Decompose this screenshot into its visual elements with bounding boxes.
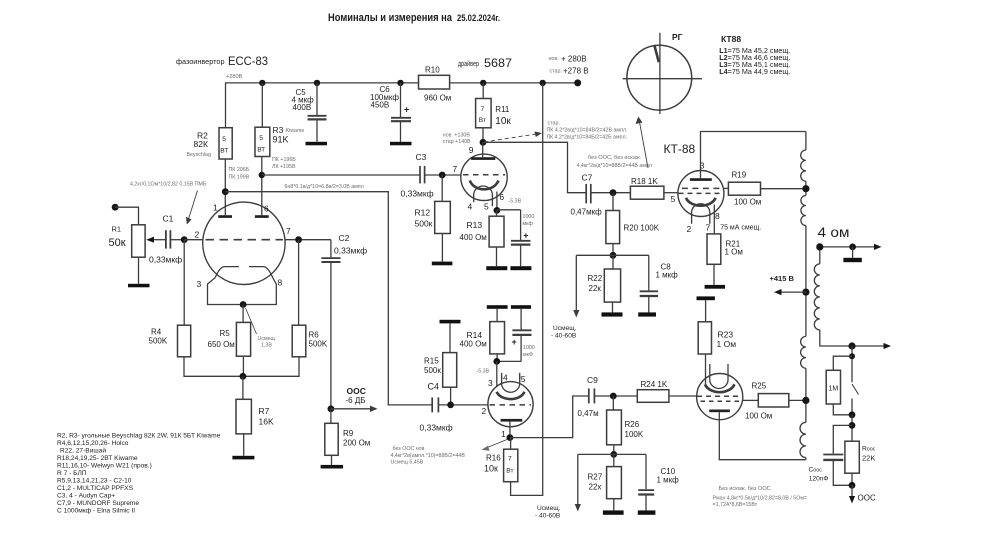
svg-text:R12: R12 <box>415 208 431 218</box>
capacitor C5 4mkf <box>316 83 318 115</box>
svg-text:500к: 500к <box>424 366 441 375</box>
node B+ tap <box>802 289 809 296</box>
rail bar above R15 <box>440 320 461 324</box>
svg-text:Вт: Вт <box>506 468 513 475</box>
svg-text:100 Ом: 100 Ом <box>734 198 761 207</box>
node R14/cathode <box>493 358 500 365</box>
svg-text:нов. +130В: нов. +130В <box>443 133 471 139</box>
svg-text:4,4кг*2в/д*10=88В/2=44В ампл: 4,4кг*2в/д*10=88В/2=44В ампл <box>577 163 652 169</box>
svg-text:L4=75 Ма 44,9 смещ.: L4=75 Ма 44,9 смещ. <box>719 69 790 76</box>
svg-text:С4: С4 <box>428 382 440 392</box>
svg-text:Uсмещ: Uсмещ <box>258 336 276 342</box>
svg-text:R14: R14 <box>467 330 483 340</box>
svg-text:7: 7 <box>286 226 291 236</box>
svg-text:16K: 16K <box>259 417 274 427</box>
svg-text:10к: 10к <box>484 464 498 474</box>
svg-text:ВТ: ВТ <box>257 147 265 154</box>
KT88 bias list <box>719 34 790 76</box>
cathode bracket pins 3,8 <box>208 278 277 305</box>
node R26/R27 <box>610 451 617 458</box>
capacitor C7 0,47mkf <box>585 184 587 204</box>
ground under R9 <box>321 465 344 469</box>
svg-text:R26: R26 <box>625 420 640 429</box>
bias feed arrow upper <box>576 254 613 256</box>
node OOC out <box>849 482 856 489</box>
ground under 1000mkf <box>510 266 531 270</box>
svg-text:+415 В: +415 В <box>770 274 795 283</box>
resistor R5 650 Om <box>242 305 244 323</box>
resistor R22 22k <box>612 255 614 269</box>
resistor R20 100K <box>612 193 614 211</box>
wire pin7 to C2 <box>285 239 331 241</box>
svg-text:1М: 1М <box>829 386 839 393</box>
svg-text:R4: R4 <box>151 328 162 337</box>
resistor R14 400 Om <box>496 309 498 322</box>
R1 wiper arrow <box>146 237 154 243</box>
svg-text:стар +140В: стар +140В <box>443 139 471 145</box>
ground bar under C10 <box>638 510 656 514</box>
capacitor 1000mkf upper <box>497 209 521 211</box>
svg-text:500K: 500K <box>149 337 168 346</box>
svg-text:L3=75 Ма 45,1 смещ.: L3=75 Ма 45,1 смещ. <box>719 62 790 69</box>
svg-text:8: 8 <box>278 278 283 288</box>
svg-text:+280В: +280В <box>226 74 243 80</box>
svg-text:без ООС нов: без ООС нов <box>393 446 425 452</box>
svg-text:R4,6,12,15,20,26- Holco: R4,6,12,15,20,26- Holco <box>57 440 129 447</box>
svg-text:ПК +196Б: ПК +196Б <box>272 157 296 163</box>
svg-text:R2, R3- угольные Beyschlag 82: R2, R3- угольные Beyschlag 82К 2W, 91К 5… <box>57 433 221 440</box>
svg-text:драйвер: драйвер <box>458 60 479 68</box>
svg-text:5: 5 <box>484 202 489 212</box>
svg-text:R22, 27-Вишай: R22, 27-Вишай <box>60 447 106 455</box>
svg-text:0,47мкф: 0,47мкф <box>571 208 603 217</box>
svg-text:100K: 100K <box>625 430 644 439</box>
wire C3 to 5687 grid <box>425 174 461 176</box>
ground under R1 <box>128 284 150 288</box>
potentiometer R1 50k <box>132 225 145 257</box>
label phase inverter ECC-83 <box>176 54 268 68</box>
5687b heater dome <box>502 376 520 392</box>
KT-88b control grid dashed <box>697 395 741 397</box>
svg-text:450В: 450В <box>371 101 390 110</box>
ECC-83 cathode hooks <box>215 267 239 278</box>
svg-text:8: 8 <box>715 211 720 221</box>
svg-text:1000: 1000 <box>523 214 535 220</box>
node OOC tap <box>328 405 335 412</box>
5687b cathode arc <box>497 392 525 399</box>
node C4/R15 <box>447 402 454 409</box>
KT-88a cathode pin 8 <box>713 205 715 234</box>
capacitor C6 100mkf <box>400 83 402 117</box>
KT-88b heater dome <box>710 376 728 389</box>
svg-text:3: 3 <box>488 378 493 388</box>
svg-text:1 Ом: 1 Ом <box>725 248 743 257</box>
svg-text:+ 280В: + 280В <box>561 55 587 64</box>
junction dots on bus <box>259 79 581 86</box>
resistor R24 1K <box>637 390 669 403</box>
svg-text:КТ88: КТ88 <box>721 34 741 44</box>
svg-text:стар.: стар. <box>548 121 560 127</box>
svg-text:С 1000мкф - Elna Silmic II: С 1000мкф - Elna Silmic II <box>57 508 135 515</box>
node pin7/R6 <box>295 236 302 243</box>
svg-text:КТ-88: КТ-88 <box>664 142 696 156</box>
ground under R13 <box>486 266 507 270</box>
resistor R27 22k <box>613 454 615 466</box>
svg-text:+: + <box>512 337 517 347</box>
ECC-83 anode plate 1 <box>218 215 232 218</box>
output 4 Om line <box>820 246 877 248</box>
KT-88a screen grid dashed <box>682 187 720 189</box>
svg-text:L2=75 Ма 46,6 смещ.: L2=75 Ма 46,6 смещ. <box>719 55 790 62</box>
svg-text:22K: 22K <box>862 454 875 463</box>
svg-text:1 Ом: 1 Ом <box>717 339 737 349</box>
svg-text:1: 1 <box>501 429 506 439</box>
KT-88a anode plate <box>690 178 712 181</box>
wire R3 node to C3 <box>262 174 420 176</box>
svg-text:С1,2 - MULTICAP PPFXS: С1,2 - MULTICAP PPFXS <box>57 485 134 492</box>
svg-text:R 7 - БЛП: R 7 - БЛП <box>57 470 87 477</box>
KT-88b cathode arc <box>705 384 734 392</box>
svg-text:1 мкф: 1 мкф <box>657 476 680 485</box>
capacitor 1000mkf lower <box>520 309 522 330</box>
svg-text:ЛК 4.2*2в/д*10=84Б/2=42Б ампл.: ЛК 4.2*2в/д*10=84Б/2=42Б ампл. <box>547 134 628 140</box>
node UL tap R19 <box>802 185 809 192</box>
resistor R26 100K <box>612 396 614 410</box>
svg-text:4 ом: 4 ом <box>818 225 850 240</box>
svg-text:R3: R3 <box>273 125 284 135</box>
svg-text:R5,9,13,14,21,23 - С2-10: R5,9,13,14,21,23 - С2-10 <box>57 478 132 485</box>
svg-text:С7: С7 <box>582 173 593 183</box>
svg-text:R27: R27 <box>588 473 603 482</box>
svg-text:Вт: Вт <box>479 117 486 124</box>
svg-text:R18,24,19,25- 2ВТ Kiwame: R18,24,19,25- 2ВТ Kiwame <box>57 455 138 462</box>
svg-text:960 Ом: 960 Ом <box>424 94 451 103</box>
node anode1/R2 <box>222 188 229 195</box>
node R4/R5/R6 <box>240 373 247 380</box>
svg-text:9: 9 <box>469 145 474 155</box>
B+ bus wire +280V <box>226 83 419 128</box>
svg-text:0,33мкф: 0,33мкф <box>420 423 453 433</box>
svg-text:R16: R16 <box>486 454 501 463</box>
wire R3 bottom to tube pin6 <box>261 157 263 216</box>
svg-text:R23: R23 <box>718 330 734 340</box>
resistor R19 100 Om <box>724 187 729 189</box>
wire R1 bottom to ground <box>138 257 140 284</box>
node C7/R18/R20 <box>610 189 617 196</box>
svg-text:2: 2 <box>482 406 487 416</box>
svg-text:0,33мкф: 0,33мкф <box>401 189 434 199</box>
svg-text:R19: R19 <box>732 171 747 180</box>
svg-text:L1=75 Ма 45,2 смещ.: L1=75 Ма 45,2 смещ. <box>719 48 790 55</box>
svg-text:400 Ом: 400 Ом <box>460 233 487 242</box>
bias feed arrow lower <box>578 453 614 455</box>
capacitor C4 0,33mkf <box>431 397 433 412</box>
5687a grid dashed <box>463 174 505 176</box>
tube 5687a envelope <box>461 154 507 200</box>
resistor R15 500k <box>449 323 451 352</box>
node Cooc tap <box>849 422 856 429</box>
resistor R21 1 Om <box>707 234 721 264</box>
svg-text:3: 3 <box>197 279 202 289</box>
svg-text:3: 3 <box>700 160 705 170</box>
svg-text:400 Ом: 400 Ом <box>460 340 487 349</box>
svg-text:РГ: РГ <box>672 32 683 42</box>
resistor R23 1 Om <box>705 300 707 322</box>
resistor 1M <box>833 356 852 370</box>
resistor R6 500K <box>298 240 300 326</box>
svg-text:Uсмещ.: Uсмещ. <box>537 505 561 512</box>
KT-88a cathode arc <box>686 198 716 206</box>
resistor R7 16K <box>242 376 244 399</box>
svg-text:Номиналы и измерения на: Номиналы и измерения на <box>328 12 453 24</box>
switch blade <box>852 384 859 395</box>
svg-text:200 Ом: 200 Ом <box>343 439 370 448</box>
OOC -6dB arrow <box>331 408 374 410</box>
svg-text:-5.3В: -5.3В <box>477 369 490 375</box>
capacitor Cooc 120pF <box>833 425 852 453</box>
svg-text:2: 2 <box>195 230 200 240</box>
svg-text:7: 7 <box>706 223 711 233</box>
5687a heater dome <box>474 186 493 206</box>
annotation arrow 5687b <box>486 440 507 449</box>
ECC-83 pin numbers <box>195 203 292 290</box>
svg-text:С9: С9 <box>587 375 598 385</box>
svg-text:7: 7 <box>453 164 458 174</box>
capacitor C3 0,33mkf <box>419 166 421 184</box>
input level annotation <box>130 182 207 188</box>
ground stub on output <box>852 247 854 258</box>
svg-text:R10: R10 <box>425 66 440 75</box>
svg-text:1: 1 <box>213 203 218 213</box>
svg-text:нов.: нов. <box>549 56 559 62</box>
capacitor C2 0,33mkf <box>330 240 332 258</box>
capacitor C1 0,33mkf <box>165 230 167 248</box>
svg-text:ЕСС-83: ЕСС-83 <box>228 54 268 68</box>
svg-text:R6: R6 <box>309 331 320 340</box>
node R20/R22 <box>610 252 617 259</box>
svg-text:0,33мкф: 0,33мкф <box>334 246 367 256</box>
tube KT-88 lower envelope <box>697 374 743 420</box>
KT-88b heater stubs <box>709 364 711 376</box>
wire grid node down to R4 <box>183 240 185 326</box>
svg-text:=1,72А*8,6В=15Вт: =1,72А*8,6В=15Вт <box>713 502 758 508</box>
svg-text:ООС: ООС <box>858 494 876 503</box>
svg-text:+: + <box>523 231 528 241</box>
svg-text:82К: 82К <box>194 139 208 149</box>
node grid ECC-83 <box>181 236 188 243</box>
dashed annotation arrow right <box>484 134 538 142</box>
svg-text:без ООС, без искаж.: без ООС, без искаж. <box>588 155 642 161</box>
svg-text:С3, 4 - Audyn Cap+: С3, 4 - Audyn Cap+ <box>57 493 115 500</box>
wire R23 to KT-88b cathode <box>705 354 707 384</box>
ground under R7 <box>232 456 254 460</box>
svg-text:+: + <box>404 105 409 115</box>
svg-text:R7: R7 <box>259 406 270 416</box>
tube ECC-83 envelope <box>203 202 285 284</box>
node nov +280V <box>549 55 587 64</box>
svg-text:Без искаж. без ООС: Без искаж. без ООС <box>719 486 771 492</box>
svg-text:91K: 91K <box>273 135 289 145</box>
ground bar under R27 <box>603 510 624 514</box>
transformer secondary winding <box>819 247 821 264</box>
svg-text:1,3В: 1,3В <box>261 343 272 349</box>
svg-text:-6 ДБ: -6 ДБ <box>346 396 366 405</box>
svg-text:R18 1K: R18 1K <box>631 177 658 186</box>
svg-text:- 40-60В: - 40-60В <box>535 513 561 520</box>
5687a cathode arc <box>470 181 499 190</box>
svg-text:мкФ: мкФ <box>523 352 533 358</box>
svg-text:стар.: стар. <box>550 69 562 75</box>
wire input to R1 <box>115 207 138 225</box>
svg-text:6: 6 <box>499 192 504 202</box>
node cathode/R13 <box>494 207 501 214</box>
wire R11 node to C7 <box>483 142 586 192</box>
svg-text:4,2кг/0,1Ом*10/2,82 0,15В ПМБ: 4,2кг/0,1Ом*10/2,82 0,15В ПМБ <box>130 182 207 188</box>
svg-text:-5.3В: -5.3В <box>509 199 522 205</box>
svg-text:400В: 400В <box>293 103 312 112</box>
svg-text:22х: 22х <box>589 483 602 492</box>
5687b grid dashed <box>490 404 532 406</box>
svg-text:22к: 22к <box>589 284 602 293</box>
wire 5687b anode to C9 <box>510 396 589 438</box>
svg-text:100 Ом: 100 Ом <box>745 412 772 421</box>
5687b anode plate <box>501 419 523 422</box>
label driver 5687 <box>458 56 512 70</box>
wire KT-88b anode to transformer bottom <box>719 412 806 460</box>
node R11/anode <box>480 139 487 146</box>
svg-text:6н8*0.1в/д*10=6.8в/2=3.0В ампл: 6н8*0.1в/д*10=6.8в/2=3.0В ампл <box>285 184 364 190</box>
ground bar under R21 <box>705 285 725 289</box>
svg-text:7: 7 <box>481 106 485 113</box>
resistor R25 100 Om <box>743 399 759 401</box>
svg-text:+278 В: +278 В <box>563 67 589 76</box>
svg-text:4: 4 <box>468 202 473 212</box>
svg-text:R5: R5 <box>220 329 231 338</box>
svg-text:650 Ом: 650 Ом <box>208 340 235 349</box>
svg-text:5: 5 <box>259 135 263 142</box>
svg-text:ПК 206Б: ПК 206Б <box>229 167 250 173</box>
svg-text:5: 5 <box>521 374 526 384</box>
node star +278V <box>550 67 589 76</box>
node cathode junction <box>240 301 247 308</box>
resistor R9 200 Om <box>330 409 332 424</box>
KT-88b screen grid dashed <box>701 400 740 402</box>
svg-text:1 мкф: 1 мкф <box>656 271 679 280</box>
svg-text:- 40-60В: - 40-60В <box>551 333 577 340</box>
svg-text:R22: R22 <box>588 274 603 283</box>
resistor R3 91K <box>261 83 263 127</box>
svg-text:R15: R15 <box>424 357 439 366</box>
svg-text:R25: R25 <box>752 382 767 391</box>
resistor R18 1K <box>630 186 664 199</box>
svg-text:С1: С1 <box>163 214 174 224</box>
ground bar under C8 <box>638 312 656 316</box>
component list <box>57 433 221 515</box>
svg-text:фазоинвертор: фазоинвертор <box>176 57 225 66</box>
svg-text:500K: 500K <box>309 340 328 349</box>
svg-text:50к: 50к <box>109 237 126 249</box>
svg-text:Rоос: Rоос <box>862 446 876 453</box>
node 1M/switch <box>849 411 856 418</box>
ground bar under R22 <box>602 312 623 316</box>
resistor Rooc 22K <box>845 441 859 473</box>
resistor R16 10k <box>510 438 512 450</box>
power note <box>713 486 808 508</box>
svg-text:R24 1K: R24 1K <box>641 380 668 389</box>
svg-text:4,4кг*2в(ампл.*10)=88В/2=44В: 4,4кг*2в(ампл.*10)=88В/2=44В <box>391 453 466 459</box>
node 5687b anode <box>507 434 514 441</box>
KT-88a control grid dashed <box>679 192 720 194</box>
svg-text:С3: С3 <box>416 152 427 162</box>
resistor R11 10k <box>482 83 484 99</box>
svg-text:ПК 4.2*2в/д*10=84В/2=42В ампл.: ПК 4.2*2в/д*10=84В/2=42В ампл. <box>547 128 628 134</box>
svg-text:Beyschlag: Beyschlag <box>187 152 211 158</box>
node C9/R24/R26 <box>610 393 617 400</box>
node UL tap R25 <box>802 397 809 404</box>
svg-text:мкф: мкф <box>523 221 534 227</box>
tube 5687b envelope <box>488 382 533 427</box>
svg-text:ООС: ООС <box>347 386 366 396</box>
svg-text:25.02.2024г.: 25.02.2024г. <box>457 13 500 23</box>
node R3/C3 <box>259 172 265 178</box>
resistor R2 82K <box>219 128 232 159</box>
svg-text:R13: R13 <box>467 220 483 230</box>
svg-text:5: 5 <box>222 136 226 143</box>
title <box>328 12 500 24</box>
node C3/R12 <box>439 172 446 179</box>
svg-text:С2: С2 <box>339 233 350 243</box>
svg-text:ВТ: ВТ <box>220 148 228 155</box>
Usmesch 1,3V note <box>258 336 276 349</box>
svg-text:R9: R9 <box>343 429 354 438</box>
wire anode1 node to C4 column <box>225 192 432 405</box>
svg-text:1000: 1000 <box>523 345 535 351</box>
capacitor C9 0,47m <box>588 388 590 403</box>
OOC divider: switch branch <box>851 346 853 382</box>
tube KT-88 upper envelope <box>678 171 724 217</box>
svg-text:5: 5 <box>671 194 676 204</box>
resistor R10 960 Om <box>419 75 450 89</box>
5687b heater stubs <box>501 373 503 379</box>
resistor R12 500k <box>441 175 443 201</box>
secondary bottom arrow <box>884 343 892 349</box>
potentiometer RG circle <box>627 45 692 110</box>
RG knob mark <box>654 45 659 62</box>
rail bar above 1000mkf lower <box>511 305 531 309</box>
svg-text:Соос: Соос <box>809 467 823 474</box>
svg-text:4: 4 <box>503 373 508 383</box>
svg-text:С7,9 - MUNDORF Supreme: С7,9 - MUNDORF Supreme <box>57 500 139 507</box>
5687a cathode pin 6 <box>496 192 498 211</box>
svg-text:2: 2 <box>687 224 692 234</box>
wire C1 to grid node <box>170 239 184 241</box>
5687a anode plate <box>471 157 495 160</box>
svg-text:ЛК +195В: ЛК +195В <box>272 164 296 170</box>
wire C4 to 5687b grid <box>438 404 488 406</box>
resistor R4 500K <box>178 325 191 357</box>
wire R2 bottom to anode node <box>224 159 226 192</box>
transformer primary winding <box>805 132 807 151</box>
svg-text:0,47м: 0,47м <box>578 409 599 418</box>
svg-text:Uсмещ.: Uсмещ. <box>553 325 577 332</box>
KT-88a heater dome <box>692 204 710 224</box>
ECC-83 anode plate 6 <box>255 215 269 218</box>
ECC-83 grid dashed <box>206 239 284 241</box>
svg-text:ПК 199В: ПК 199В <box>229 175 250 181</box>
svg-text:Kiwame: Kiwame <box>286 128 305 134</box>
svg-text:7: 7 <box>508 456 512 463</box>
annotation arrow to RG <box>640 122 649 168</box>
